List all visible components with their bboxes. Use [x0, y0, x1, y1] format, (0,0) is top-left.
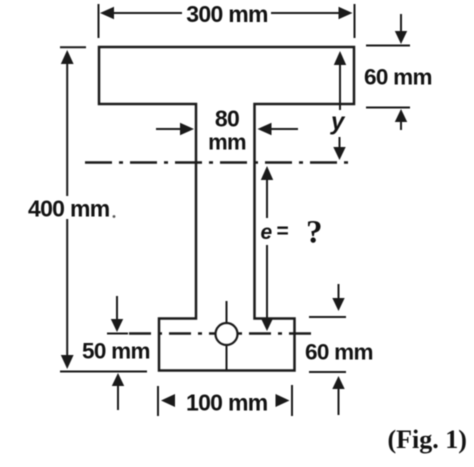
svg-text:100 mm: 100 mm [186, 390, 268, 416]
svg-text:400 mm: 400 mm [28, 196, 110, 222]
section outline (T-section with bottom flange) [99, 47, 354, 371]
svg-text:?: ? [306, 215, 323, 251]
svg-text:80: 80 [215, 106, 239, 132]
svg-text:e: e [261, 221, 273, 244]
svg-text:=: = [277, 220, 289, 243]
circle at load point [216, 323, 238, 345]
dimension 60 mm (bottom right flange thickness) [309, 284, 346, 415]
centroid axis dash-dot line [85, 161, 353, 164]
dimension 50 mm (bottom left) [107, 296, 128, 410]
dimension 300 mm (top) [99, 4, 355, 38]
svg-text:y: y [330, 109, 346, 136]
stray scan dot [113, 215, 116, 218]
dimension 100 mm (bottom) [158, 385, 292, 416]
dimension 60 mm (top right flange thickness) [366, 14, 410, 130]
bottom axis dash-dot line [129, 332, 318, 335]
circle crosshair vertical line [226, 301, 228, 370]
dimension 80 mm (web width arrows) [156, 123, 298, 135]
svg-text:60 mm: 60 mm [305, 340, 373, 365]
svg-text:50 mm: 50 mm [82, 339, 150, 364]
dimension e (bottom axis to centroid axis) [261, 166, 273, 331]
svg-text:mm: mm [208, 130, 246, 155]
dimension 400 mm (left) [60, 47, 147, 371]
svg-text:300 mm: 300 mm [186, 1, 268, 27]
dimension y (flange underside to centroid axis) [333, 51, 346, 160]
svg-text:60 mm: 60 mm [364, 65, 432, 90]
svg-text:(Fig. 1): (Fig. 1) [388, 425, 467, 454]
